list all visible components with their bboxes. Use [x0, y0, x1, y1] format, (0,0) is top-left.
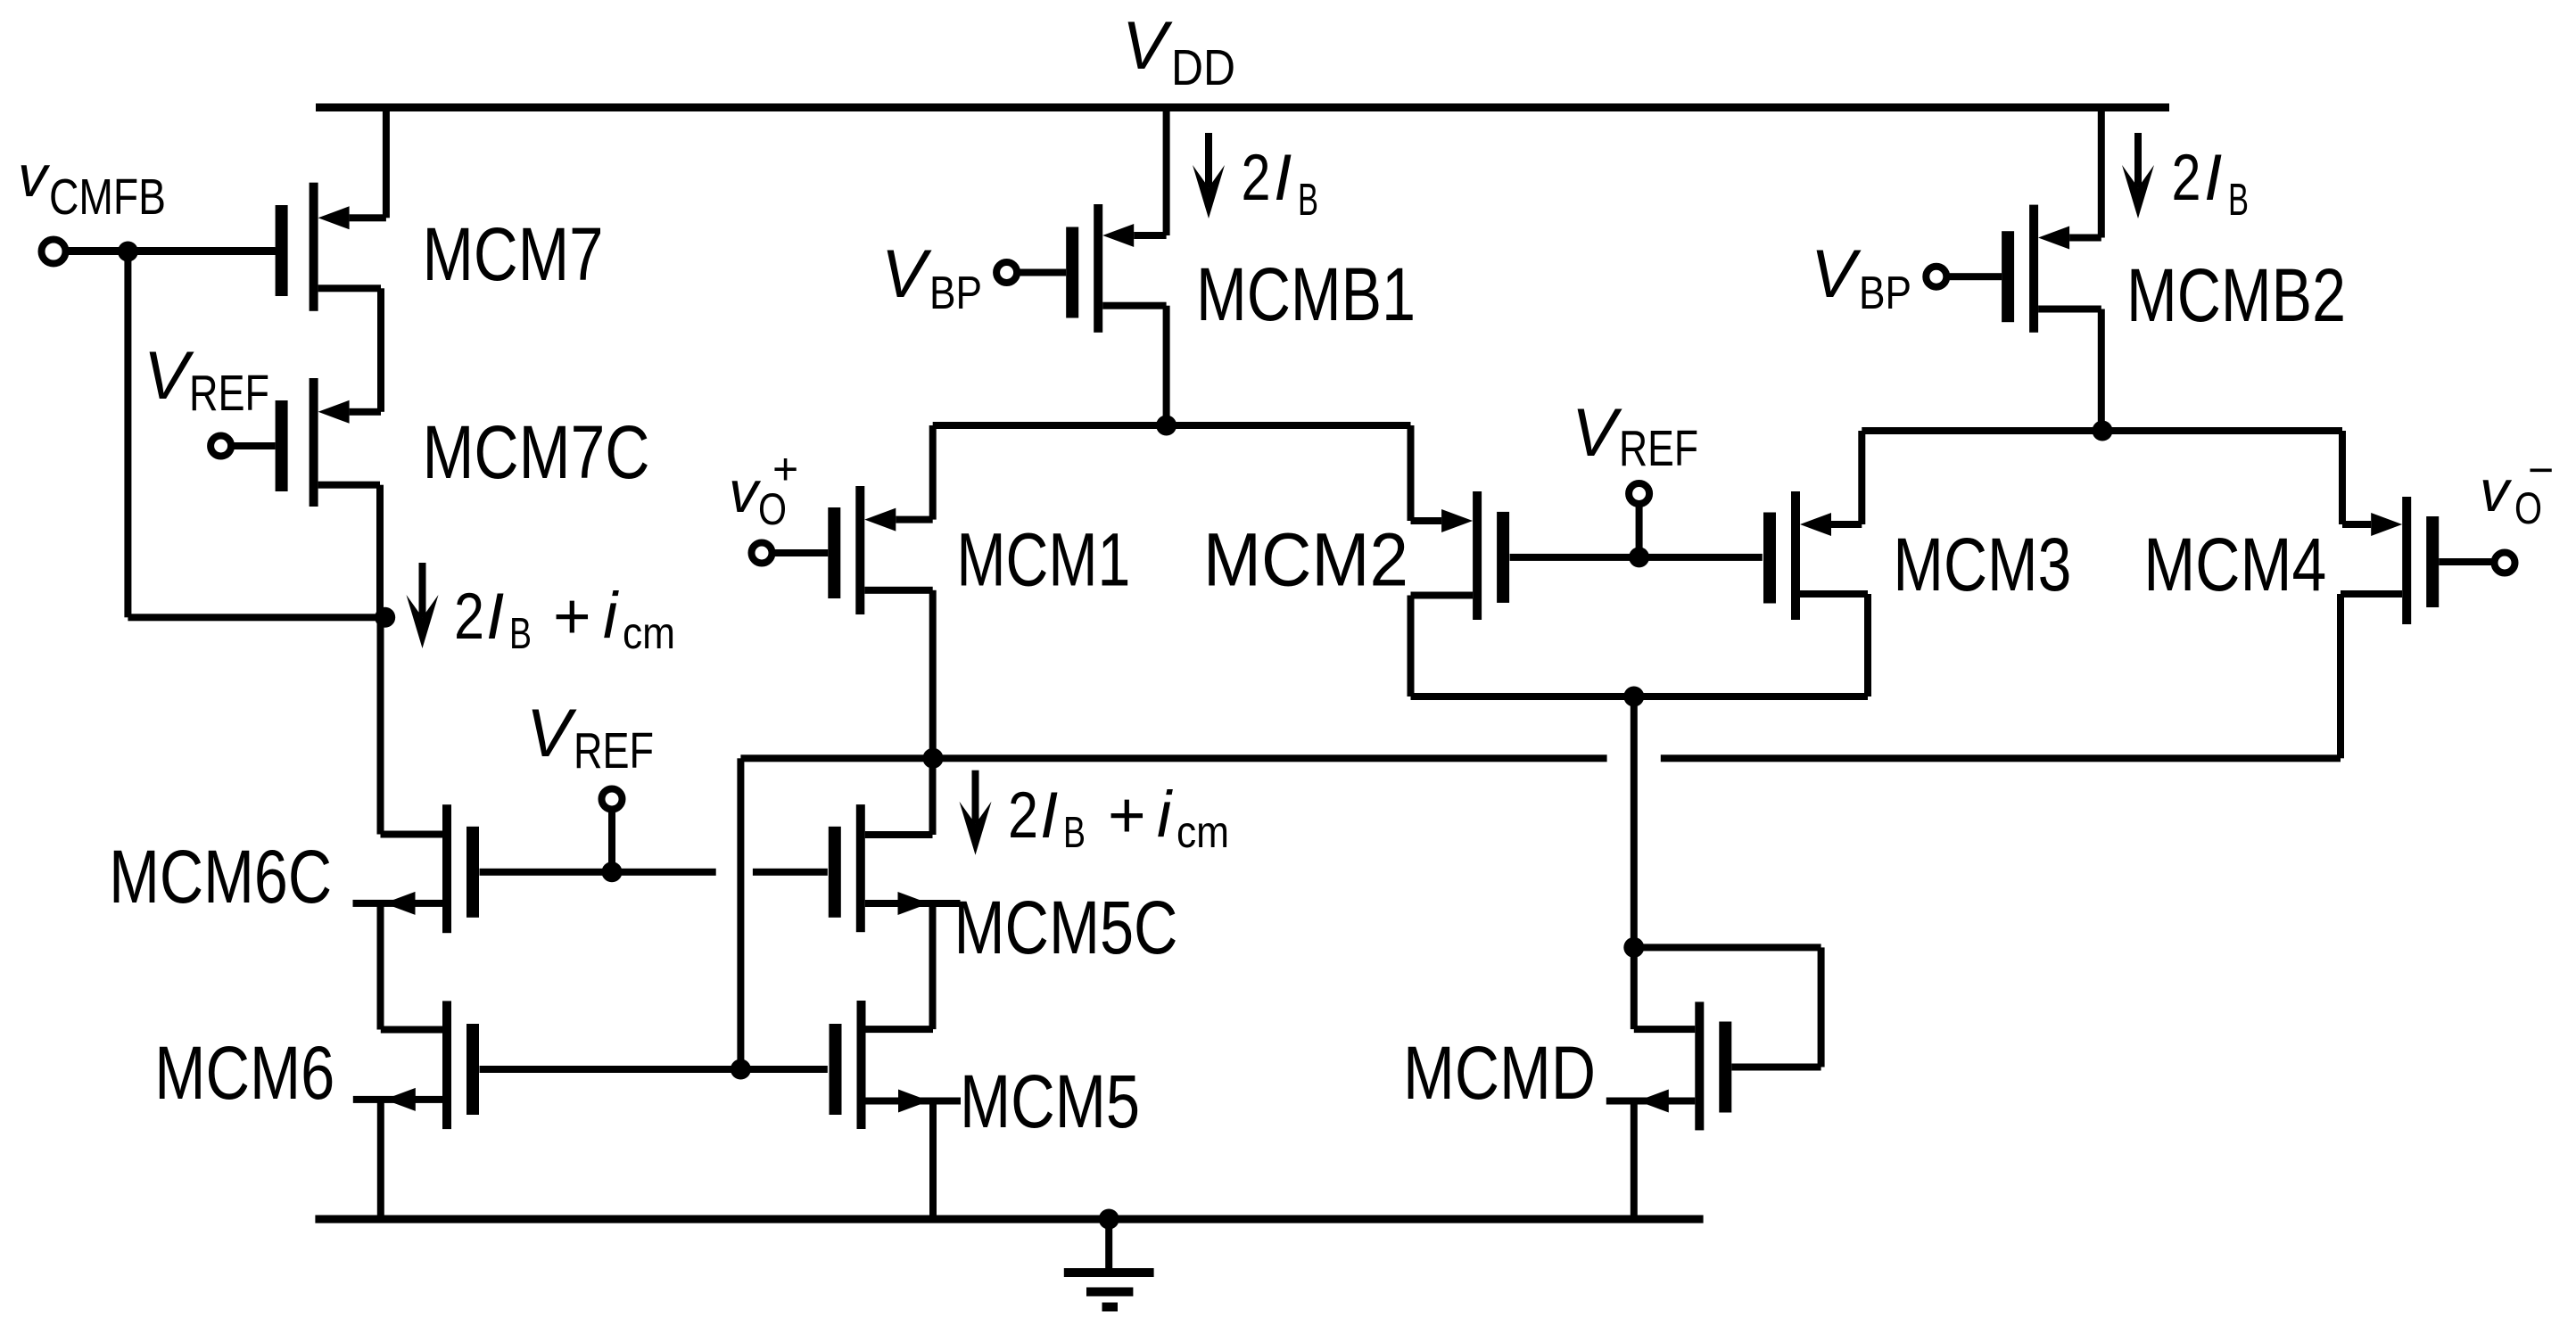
transistor MCM3: [1763, 491, 1868, 620]
svg-text:MCM5: MCM5: [960, 1059, 1140, 1143]
label VBP MCMB1: [881, 236, 982, 319]
label vCMFB: [18, 143, 166, 226]
svg-text:B: B: [2228, 174, 2249, 225]
node MCMB2 drain: [2093, 421, 2113, 441]
node A junction MCM1-MCM5C: [923, 748, 944, 769]
terminal vO- MCM4 gate: [2495, 553, 2515, 573]
wire diode connection down: [1818, 947, 1825, 1067]
label VREF MCM7C: [144, 338, 269, 422]
svg-text:MCM6C: MCM6C: [109, 835, 332, 919]
wire MCM5C drain up: [929, 758, 937, 835]
transistor MCM6: [353, 1001, 479, 1129]
svg-text:MCM5C: MCM5C: [954, 886, 1178, 969]
svg-text:MCM4: MCM4: [2143, 523, 2326, 606]
svg-text:+: +: [553, 581, 589, 653]
wire vCMFB to MCM7 gate: [64, 248, 277, 255]
wire source node MCM1-MCM2: [933, 422, 1411, 429]
wire MCMB1 drain down: [1163, 306, 1170, 425]
transistor MCM2: [1411, 491, 1510, 620]
svg-text:B: B: [1063, 809, 1086, 857]
svg-text:MCM2: MCM2: [1203, 518, 1408, 602]
wire MCM1 source up: [929, 425, 937, 520]
label MCM7C: [423, 410, 650, 494]
label 2IB MCMB2: [2172, 142, 2250, 225]
label MCM6C: [109, 835, 332, 919]
wire MCM7 source to VDD: [383, 108, 390, 218]
svg-text:MCMB1: MCMB1: [1196, 252, 1416, 336]
wire diode connection right: [1634, 944, 1821, 951]
node gate bus junction: [731, 1059, 751, 1080]
wire gate bus MCM6-MCM5: [480, 1066, 828, 1073]
transistor MCMD: [1606, 1001, 1821, 1130]
current arrow 2IB MCMB2: [2122, 133, 2154, 218]
wire MCM1 drain down: [929, 590, 937, 759]
label VREF bus: [526, 696, 654, 779]
svg-text:B: B: [509, 610, 532, 658]
transistor MCMB1: [1017, 204, 1167, 333]
wire MCMB2 source to VDD: [2098, 108, 2105, 238]
current arrow 2IB+icm left: [407, 563, 439, 648]
wire VREF bus stem: [608, 808, 615, 872]
svg-text:BP: BP: [1859, 268, 1911, 319]
node VREF bus junction: [602, 861, 623, 882]
label 2IB MCMB1: [1242, 142, 1319, 225]
svg-text:cm: cm: [623, 608, 675, 658]
node MCMB1 drain: [1156, 416, 1177, 436]
transistor MCM5: [830, 1001, 962, 1129]
terminal VREF bus: [602, 789, 623, 810]
wire MCM3 drain down: [1864, 594, 1871, 696]
current arrow 2IB MCMB1: [1193, 133, 1225, 218]
svg-text:MCMD: MCMD: [1403, 1031, 1596, 1115]
label MCM7: [423, 212, 604, 296]
wire drain bus MCM2-MCM3: [1411, 693, 1869, 700]
wire VREF bus left segment: [480, 869, 716, 876]
transistor MCM5C: [829, 804, 961, 932]
svg-text:DD: DD: [1171, 39, 1235, 96]
svg-text:2: 2: [1008, 779, 1038, 852]
transistor MCM7C: [234, 378, 381, 507]
wire node A right segment: [1661, 754, 2341, 762]
transistor MCM6C: [353, 804, 480, 933]
terminal VBP MCMB1: [996, 262, 1017, 283]
svg-text:MCMB2: MCMB2: [2126, 253, 2346, 337]
terminal vCMFB: [42, 240, 66, 264]
node drain bus junction: [1623, 687, 1644, 707]
wire gate bus MCM2-MCM3: [1510, 554, 1763, 561]
label MCM4: [2143, 523, 2326, 606]
ground rail: [315, 1216, 1703, 1224]
node 2IB+icm left: [375, 607, 395, 628]
wire MCMB1 source to VDD: [1163, 108, 1170, 236]
label VDD: [1122, 8, 1235, 96]
wire MCMD drain up segment: [1631, 947, 1638, 1029]
node vCMFB junction: [118, 242, 138, 262]
svg-text:2: 2: [2172, 142, 2201, 214]
transistor MCM7: [67, 183, 386, 311]
terminal vO+ MCM1 gate: [752, 543, 772, 564]
svg-text:2: 2: [454, 581, 484, 653]
label VREF mid: [1572, 395, 1698, 477]
wire MCM7 drain down: [377, 288, 384, 412]
terminal VREF MCM7C gate: [211, 436, 231, 457]
current arrow 2IB+icm right: [960, 771, 992, 855]
label MCM3: [1893, 523, 2071, 606]
wire MCM2 source up: [1408, 425, 1415, 521]
wire MCM6 source to ground: [377, 1100, 384, 1219]
wire node A left segment: [740, 754, 1606, 762]
label MCMB1: [1196, 252, 1416, 336]
wire VREF stem: [1636, 503, 1643, 557]
wire MCM5C source down: [929, 903, 937, 1029]
wire MCM3 source up: [1858, 431, 1865, 524]
node VREF mid junction: [1629, 547, 1649, 567]
terminal VBP MCMB2: [1926, 267, 1946, 287]
wire MCM4 source down: [2339, 431, 2346, 524]
wire MCM5 source to ground: [929, 1101, 937, 1220]
label MCMB2: [2126, 253, 2346, 337]
wire MCMB2 drain down: [2098, 309, 2105, 432]
svg-text:2: 2: [1242, 142, 1271, 214]
label 2IB+icm right: [1008, 779, 1229, 857]
label MCM1: [956, 518, 1130, 602]
svg-text:REF: REF: [574, 722, 654, 779]
svg-text:BP: BP: [929, 268, 982, 319]
svg-text:REF: REF: [189, 365, 269, 422]
node MCMD diode junction: [1623, 937, 1644, 958]
label MCMD: [1403, 1031, 1596, 1115]
svg-text:cm: cm: [1177, 807, 1229, 857]
svg-text:MCM7C: MCM7C: [423, 410, 650, 494]
svg-text:+: +: [772, 444, 797, 494]
label vO+: [729, 444, 797, 534]
wire source node MCM3-MCM4: [1862, 427, 2342, 434]
wire MCM7C drain to node: [376, 485, 384, 618]
ground symbol: [1064, 1219, 1154, 1312]
power rail VDD: [316, 103, 2169, 111]
wire MCM2 drain down: [1408, 596, 1415, 697]
wire vCMFB to node A: [128, 614, 384, 621]
svg-text:B: B: [1298, 174, 1318, 225]
label MCM6: [154, 1031, 334, 1115]
transistor MCMB2: [1946, 205, 2101, 333]
svg-text:−: −: [2528, 445, 2552, 495]
svg-text:MCM7: MCM7: [423, 212, 604, 296]
transistor MCM4: [2341, 497, 2492, 624]
wire node A corner down: [737, 758, 744, 1069]
label vO-: [2480, 445, 2552, 533]
svg-text:+: +: [1108, 779, 1144, 852]
label MCM5C: [954, 886, 1178, 969]
label MCM2: [1203, 518, 1408, 602]
wire node down to MCMD: [1631, 696, 1638, 947]
wire VREF bus right segment: [753, 869, 828, 876]
svg-text:CMFB: CMFB: [49, 169, 166, 226]
wire MCMD source to ground: [1631, 1101, 1638, 1220]
wire vCMFB down: [124, 251, 131, 617]
svg-text:MCM6: MCM6: [154, 1031, 334, 1115]
node ground junction: [1099, 1209, 1119, 1230]
transistor MCM1: [772, 486, 933, 614]
label MCM5: [960, 1059, 1140, 1143]
terminal VREF mid: [1629, 483, 1649, 504]
wire node down to MCM6C: [377, 617, 384, 834]
label 2IB+icm left: [454, 580, 675, 658]
svg-text:MCM1: MCM1: [956, 518, 1130, 602]
svg-text:REF: REF: [1619, 420, 1698, 477]
wire MCM6C source down: [377, 903, 384, 1030]
wire MCM4 drain down: [2337, 594, 2344, 758]
label VBP MCMB2: [1811, 236, 1911, 319]
svg-text:MCM3: MCM3: [1893, 523, 2071, 606]
